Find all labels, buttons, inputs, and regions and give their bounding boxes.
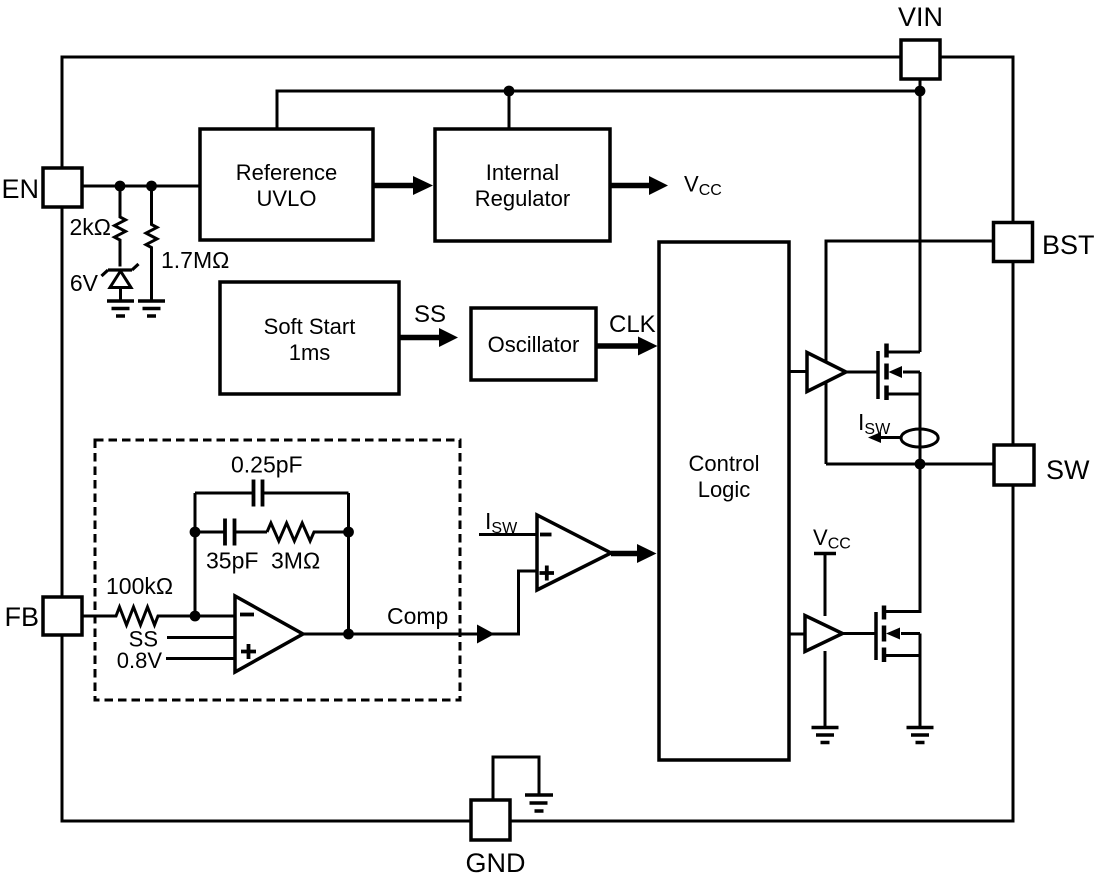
ground (under 1.7M resistor) — [138, 301, 165, 316]
block: Internal Regulator U2 — [435, 129, 610, 241]
node: junction inverting input — [190, 611, 201, 622]
node: junction VIN rail — [915, 86, 926, 97]
wire: FB pin through 100k to inverting input — [82, 607, 235, 625]
svg-text:1ms: 1ms — [289, 340, 331, 365]
wire: arrow Internal Regulator to VCC output — [610, 176, 668, 195]
op-amp U5 error amplifier — [235, 596, 303, 672]
svg-text:ISW: ISW — [485, 508, 518, 537]
svg-text:35pF: 35pF — [206, 548, 258, 574]
resistor 2k (vertical) — [115, 186, 126, 267]
wire: arrow Reference UVLO to Internal Regulator — [373, 176, 433, 195]
block: Reference UVLO U1 — [200, 129, 373, 240]
svg-text:VCC: VCC — [813, 525, 851, 553]
wire: GND pin internal ground loop — [493, 757, 539, 800]
svg-text:2kΩ: 2kΩ — [70, 214, 112, 240]
wire: arrow Oscillator to Control Logic (CLK) — [596, 337, 658, 356]
svg-text:VCC: VCC — [684, 172, 722, 200]
block: Oscillator U4 — [471, 308, 596, 380]
ground (internal GND) — [525, 795, 553, 811]
svg-text:Comp: Comp — [387, 603, 448, 629]
wire: BST rail to high-side driver — [826, 241, 994, 464]
svg-text:0.25pF: 0.25pF — [231, 452, 303, 478]
svg-text:Soft Start: Soft Start — [264, 314, 356, 339]
svg-text:Reference: Reference — [236, 160, 338, 185]
svg-text:GND: GND — [466, 848, 526, 878]
pin BST — [994, 223, 1033, 262]
ground (under zener) — [107, 301, 134, 316]
wire: SW rail from driver return to SW pin — [826, 463, 994, 466]
node: junction feedback right — [343, 527, 354, 538]
wire: VIN vertical down to high-side FET drain — [919, 79, 922, 352]
node: junction EN / 2k resistor — [115, 181, 126, 192]
pin GND — [471, 800, 510, 840]
wire: outer border loop (VIN to BST/SW right edge, bottom to GND, left edge through FB/EN) — [62, 57, 1013, 821]
buffer U9 low-side gate driver — [805, 616, 843, 652]
wire: EN pin to Reference UVLO input — [82, 185, 200, 188]
ground (under Q2 source) — [907, 728, 934, 743]
wire: 0.8V input to non-inverting input — [166, 657, 235, 660]
node: VCC supply of low-side driver — [813, 525, 851, 616]
svg-text:SW: SW — [1046, 455, 1090, 485]
svg-text:Regulator: Regulator — [475, 186, 570, 211]
wire: feedback right vertical — [347, 493, 350, 634]
resistor 1.7M (vertical) — [146, 186, 157, 301]
capacitor C1 0.25pF top feedback — [195, 480, 349, 507]
wire: driver return to ground — [824, 651, 827, 728]
ground (under low-side driver) — [812, 728, 839, 743]
wire: VIN distribution rail to Reference UVLO and Internal Regulator — [277, 91, 920, 129]
svg-text:Oscillator: Oscillator — [488, 332, 580, 357]
node: junction SW rail — [915, 459, 926, 470]
svg-text:SS: SS — [414, 301, 446, 328]
transistor Q1 high-side NMOS — [878, 344, 920, 465]
wire: feedback left vertical — [194, 493, 197, 616]
wire: driver output to Q1 gate — [846, 371, 878, 374]
wire: SW rail down to low-side FET drain — [884, 464, 920, 612]
current sensor ISW (ellipse) — [901, 429, 938, 447]
wire: arrow comparator to Control Logic — [611, 544, 657, 563]
wire: stub down to Internal Regulator top — [508, 91, 511, 129]
svg-text:1.7MΩ: 1.7MΩ — [161, 247, 229, 273]
wire: Control Logic to high-side driver input — [789, 370, 807, 373]
op-amp U6 current comparator — [537, 515, 611, 590]
buffer U8 high-side gate driver — [807, 353, 846, 392]
svg-text:100kΩ: 100kΩ — [106, 573, 173, 599]
block: Control Logic U7 — [659, 242, 789, 760]
wire: ISW input to comparator — [479, 533, 537, 536]
pin VIN — [901, 40, 940, 79]
node: junction at Internal Regulator stub — [504, 86, 515, 97]
pin EN — [43, 168, 82, 207]
block: Soft Start 1ms U3 — [220, 282, 399, 394]
svg-text:FB: FB — [4, 602, 39, 632]
svg-text:Control: Control — [689, 451, 760, 476]
diode D1 zener 6V — [102, 264, 139, 301]
wire: driver output to Q2 gate — [843, 632, 877, 635]
pin SW — [994, 445, 1034, 485]
transistor Q2 low-side NMOS — [876, 606, 920, 728]
svg-text:Logic: Logic — [698, 477, 751, 502]
wire: arrow Soft Start to Oscillator (SS) — [399, 328, 458, 347]
node: junction EN / 1.7M resistor — [146, 181, 157, 192]
block: error amplifier dashed boundary — [95, 440, 460, 700]
svg-text:CLK: CLK — [609, 311, 656, 338]
wire: Comp output line — [303, 571, 537, 634]
wire: Control Logic to low-side driver input — [789, 633, 805, 636]
wire: arrowhead on Comp line — [477, 625, 495, 644]
pin FB — [43, 597, 82, 635]
wire: ISW sense arrow — [868, 432, 901, 443]
svg-text:UVLO: UVLO — [257, 186, 317, 211]
resistor R2 3M (horizontal) — [267, 523, 349, 541]
svg-text:EN: EN — [1, 174, 39, 204]
node: junction op-amp output — [343, 629, 354, 640]
svg-text:3MΩ: 3MΩ — [271, 548, 320, 574]
capacitor C2 35pF — [195, 519, 267, 546]
svg-text:6V: 6V — [70, 270, 99, 296]
svg-text:0.8V: 0.8V — [117, 648, 163, 673]
svg-text:VIN: VIN — [898, 2, 943, 32]
svg-text:BST: BST — [1042, 230, 1095, 260]
wire: SS input to non-inverting input — [167, 636, 235, 639]
svg-text:ISW: ISW — [858, 409, 891, 438]
svg-text:Internal: Internal — [486, 160, 559, 185]
node: junction feedback left — [190, 527, 201, 538]
